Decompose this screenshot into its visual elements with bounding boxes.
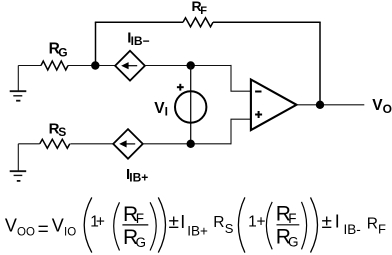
svg-text:F: F bbox=[200, 5, 207, 17]
op-amp U1 bbox=[251, 80, 297, 131]
current source IIB+ (diamond) bbox=[113, 129, 143, 159]
resistor RF bbox=[183, 18, 213, 27]
wire: bottom rail ground2 to RS bbox=[18, 143, 40, 145]
VI plus polarity mark bbox=[177, 84, 184, 91]
wire: VI vertical through source bbox=[190, 66, 192, 144]
svg-text:S: S bbox=[58, 125, 66, 139]
inner paren close 1 bbox=[150, 202, 156, 250]
svg-text:R: R bbox=[213, 214, 224, 231]
wire: non-inverting step up into op-amp bbox=[231, 119, 251, 144]
svg-text:G: G bbox=[136, 235, 147, 250]
wire: op-amp output to VO bbox=[297, 104, 365, 106]
wire: feedback right vertical bbox=[319, 22, 321, 105]
svg-text:OO: OO bbox=[17, 226, 35, 238]
svg-text:±: ± bbox=[322, 212, 332, 233]
wire: node A to current source IIB- bbox=[99, 65, 115, 67]
svg-text:V: V bbox=[154, 100, 165, 117]
svg-text:V: V bbox=[52, 216, 64, 236]
svg-text:F: F bbox=[378, 221, 386, 236]
current source IIB- (diamond) bbox=[115, 51, 145, 81]
wire: feedback left vertical bbox=[95, 22, 97, 65]
svg-text:G: G bbox=[58, 46, 67, 60]
svg-text:+: + bbox=[96, 213, 105, 230]
wire: IIB+ to VI bottom node bbox=[143, 143, 231, 145]
big paren close 2 bbox=[311, 197, 318, 252]
wire: ground1 stem bbox=[17, 66, 19, 92]
big paren close 1 bbox=[158, 197, 165, 252]
svg-text:R: R bbox=[367, 216, 378, 233]
svg-text:IB+: IB+ bbox=[129, 171, 148, 185]
svg-text:IO: IO bbox=[64, 226, 76, 238]
svg-text:S: S bbox=[225, 221, 234, 236]
svg-text:±: ± bbox=[169, 212, 179, 233]
wire: IIB- to VI top node bbox=[145, 65, 231, 67]
ground bbox=[10, 171, 27, 181]
inner paren open 2 bbox=[266, 202, 272, 250]
wire: feedback top right segment bbox=[213, 21, 321, 23]
wire: ground2 stem bbox=[17, 144, 19, 171]
big paren open 1 bbox=[84, 197, 92, 252]
ground bbox=[10, 91, 27, 101]
svg-text:I: I bbox=[165, 105, 168, 119]
node: VI bottom junction dot bbox=[187, 140, 195, 148]
wire: top rail left segment (ground1 to RG) bbox=[18, 65, 41, 67]
svg-text:+: + bbox=[257, 213, 266, 230]
equation VOO bbox=[5, 197, 386, 252]
svg-text:G: G bbox=[288, 235, 299, 250]
wire: RS to current source IIB+ bbox=[70, 143, 113, 145]
node: output junction dot bbox=[316, 101, 324, 109]
svg-text:F: F bbox=[136, 211, 144, 226]
resistor RS bbox=[40, 139, 70, 148]
op-amp plus input mark bbox=[255, 111, 262, 118]
svg-text:V: V bbox=[5, 216, 17, 236]
inner paren open 1 bbox=[114, 202, 120, 250]
svg-text:=: = bbox=[38, 219, 49, 240]
svg-text:O: O bbox=[383, 102, 392, 116]
node: VI top junction dot bbox=[187, 61, 195, 69]
node A (inverting input junction dot) bbox=[91, 61, 99, 69]
big paren open 2 bbox=[238, 197, 245, 252]
svg-text:I: I bbox=[335, 212, 340, 232]
wire: feedback top left segment bbox=[95, 21, 183, 23]
resistor RG bbox=[41, 61, 68, 70]
voltage source VI (circle) bbox=[175, 91, 206, 122]
op-amp minus input mark bbox=[255, 91, 261, 93]
inner paren close 2 bbox=[302, 202, 307, 250]
svg-text:1: 1 bbox=[248, 213, 257, 230]
wire: RG to node A bbox=[68, 65, 95, 67]
svg-text:IB-: IB- bbox=[344, 222, 361, 237]
svg-text:IB+: IB+ bbox=[187, 223, 208, 238]
wire: inverting step down into op-amp bbox=[231, 65, 251, 91]
svg-text:IB−: IB− bbox=[131, 34, 150, 48]
svg-text:F: F bbox=[288, 211, 296, 226]
svg-text:I: I bbox=[180, 212, 185, 232]
